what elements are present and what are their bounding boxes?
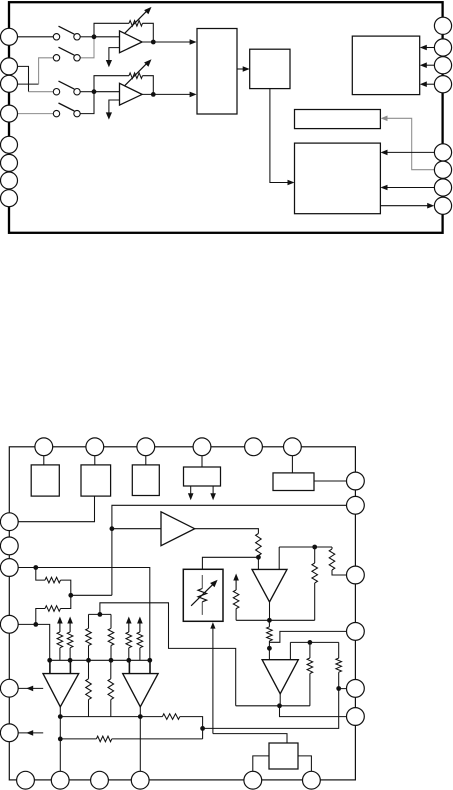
resistor R26 lead top xyxy=(110,660,112,679)
node dot bias rail x=88.5 xyxy=(86,658,91,663)
feedback wire node N2 up and over to A2 output xyxy=(94,76,129,92)
resistor R17 lead bottom xyxy=(88,646,90,661)
resistor R17 lead top xyxy=(88,614,90,628)
wire amp A5 output to pin P-B4 xyxy=(139,706,141,780)
output rail lower right segment xyxy=(112,738,203,740)
wire node N5 to comparator U2 xyxy=(268,648,270,659)
resistor R25 xyxy=(86,679,92,700)
arrow into block E from pin R5 xyxy=(381,150,388,156)
variable resistor VR2 in A2 feedback xyxy=(129,73,143,79)
wire pin R5 to block E xyxy=(387,151,435,153)
node dot bias rail x=70.1 xyxy=(68,658,73,663)
amp A4 xyxy=(43,674,79,707)
wire pin P-B6 to OSC xyxy=(298,756,311,772)
output rail upper right segment xyxy=(180,717,203,739)
resistor R25 lead bottom xyxy=(88,700,90,717)
resistor R20 lead right xyxy=(61,595,71,608)
arrow into block E from block B xyxy=(288,180,295,186)
node dot N9 xyxy=(33,622,38,627)
current source arrow I5 xyxy=(137,617,143,624)
pin L1 (top diagram) xyxy=(1,28,18,45)
switch S2 xyxy=(53,55,59,61)
wire node N7 to pin P-R5 xyxy=(339,688,356,690)
output rail upper xyxy=(60,716,162,718)
wire node N1 to op-amp A1 input xyxy=(94,36,120,38)
wire pin P-L4 to node N9 xyxy=(9,623,36,625)
pin R2 (top diagram) xyxy=(434,39,451,56)
resistor R10 xyxy=(256,534,262,556)
pin P-T3 xyxy=(137,438,155,456)
variable resistor VR1 in A1 feedback xyxy=(129,21,143,27)
switch S1 xyxy=(53,34,59,40)
wire box F5 to pin P-R1 xyxy=(314,480,355,482)
arrow into block E from pin R7 xyxy=(381,185,388,191)
pin P-T5 xyxy=(245,438,263,456)
pin L7 (top diagram) xyxy=(1,172,18,189)
pin R3 (top diagram) xyxy=(434,57,451,74)
wire pin R7 to block E xyxy=(387,187,435,189)
pin P-R3 xyxy=(347,566,365,584)
pin P-B4 xyxy=(131,771,149,789)
resistor R15 (U2 feedback) xyxy=(307,658,313,674)
wire tap to buffer input rail xyxy=(71,594,112,596)
wire U1 inverting input from node N4 xyxy=(278,547,280,569)
outer border of top block diagram xyxy=(9,2,443,233)
wire feedback node N6 rail xyxy=(290,641,338,643)
op-amp A1 xyxy=(120,31,143,53)
wire pin R6 route to block D xyxy=(387,118,435,169)
wire bias rail right stub to amp A5 xyxy=(149,660,151,673)
arrow into block C from pin R2 xyxy=(420,45,427,51)
bias rail xyxy=(50,659,150,661)
varicap zigzag xyxy=(198,589,207,602)
wire pin P-L3 rail xyxy=(9,568,150,661)
block B (control logic) xyxy=(250,49,290,88)
resistor R26 lead bottom xyxy=(110,700,112,717)
block MUX (input selector) xyxy=(197,29,237,115)
wire A3 output to resistor R10 xyxy=(195,529,259,534)
wire U1 output down xyxy=(269,602,271,620)
resistor R21 of current source xyxy=(57,632,63,648)
resistor R14 xyxy=(267,627,273,641)
resistor R18 lead top xyxy=(110,614,112,628)
varicap body line xyxy=(201,575,203,589)
wire bias rail to amp A5 xyxy=(128,660,130,673)
switch S4 xyxy=(53,110,59,116)
box F3 xyxy=(132,465,159,496)
block D (register) xyxy=(295,110,381,129)
pin P-R6 xyxy=(347,708,365,726)
wire varcap box top to node N3 xyxy=(202,557,258,569)
wire Y-node rail xyxy=(89,613,112,615)
wire U2 output to pin P-R6 xyxy=(280,706,356,717)
box F5 xyxy=(273,473,314,491)
op-amp A2 xyxy=(120,83,143,105)
resistor R11 xyxy=(312,563,318,583)
pin P-R4 xyxy=(347,623,365,641)
arrow into block MUX from A1 xyxy=(190,39,197,45)
node dot mid tap xyxy=(200,726,205,731)
stub pin T2 to box F2 xyxy=(94,456,96,465)
wire pin3 route up to switch S2 xyxy=(39,58,54,84)
wire block E to pin R8 xyxy=(380,205,428,207)
varicap arrow xyxy=(191,583,215,606)
resistor R14 lead bottom xyxy=(268,641,270,648)
wire pin R3 to block C xyxy=(426,64,435,66)
wire pin3 stub xyxy=(9,83,39,85)
wire node N3 to comparator U1 non-inverting input xyxy=(257,557,259,569)
switch S3 xyxy=(53,89,59,95)
wire bias rail left stub to amp A4 xyxy=(49,660,51,673)
resistor R11 lead top xyxy=(314,547,316,563)
arrow down from box F4 right xyxy=(212,486,214,494)
current source arrow I2 xyxy=(57,617,63,624)
pin L4 (top diagram) xyxy=(1,105,18,122)
wire node N4 rail xyxy=(279,546,332,548)
resistor R15 lead top xyxy=(309,642,311,658)
resistor R22 of current source xyxy=(67,632,73,648)
wire into buffer amp A3 xyxy=(112,528,161,530)
current source arrow I4 xyxy=(126,617,132,624)
wire A1 output to block MUX xyxy=(142,41,190,43)
node dot N4 xyxy=(312,545,317,550)
outer border ring of IC schematic xyxy=(9,447,355,780)
resistor R16 xyxy=(336,658,342,672)
current source arrow I1 xyxy=(233,574,239,581)
wire node N7 down to bottom rail xyxy=(203,689,339,729)
stub pin T3 to box F3 xyxy=(145,456,147,465)
oscillator box OSC xyxy=(269,743,298,769)
pin R1 (top diagram) xyxy=(434,17,451,34)
pin P-B3 xyxy=(91,771,109,789)
pin P-B5 xyxy=(244,771,262,789)
wire pin P-R4 to node N5 xyxy=(269,631,355,642)
resistor R18 xyxy=(108,628,114,645)
resistor R11 lead bottom to U1 output rail xyxy=(314,583,316,620)
node dot A1 output xyxy=(151,40,156,45)
pin R5 (top diagram) xyxy=(434,144,451,161)
wire resistor R10 to node N3 xyxy=(257,556,259,558)
resistor R19 lead right xyxy=(61,580,71,595)
wire resistor R12 to pin P-R3 xyxy=(332,570,355,575)
arrow into block B xyxy=(243,66,250,72)
varicap bottom lead with up arrow xyxy=(210,622,215,629)
resistor R19 lead xyxy=(36,568,45,581)
pin P-L6 xyxy=(0,724,18,742)
current source arrow I3 xyxy=(67,617,73,624)
wire box F2 down to pin P-L1 xyxy=(9,496,94,522)
comparator U2 xyxy=(262,660,298,694)
wire A2 output to block MUX xyxy=(142,93,190,95)
pin P-T4 xyxy=(193,438,211,456)
wire pin R2 to block C xyxy=(426,47,435,49)
resistor R13 of current source I1 xyxy=(233,590,239,609)
wire pin1 to switch S1 xyxy=(9,36,54,38)
resistor R22 lead to bias rail xyxy=(69,648,71,661)
node dot N1 xyxy=(92,34,97,39)
wire route to switch S3 xyxy=(29,91,54,93)
varicap box VC1 xyxy=(183,569,223,621)
pin P-B1 xyxy=(17,771,35,789)
node dot on P-L3 rail xyxy=(33,565,38,570)
wire U2 inverting input xyxy=(289,642,291,659)
pin P-T1 xyxy=(35,438,53,456)
arrow from block E to pin R8 xyxy=(427,203,434,209)
resistor R24 of current source xyxy=(137,632,143,648)
node dot A5 output xyxy=(138,714,143,719)
output rail lower xyxy=(60,738,96,740)
A1 inverting input stub to reference arrow xyxy=(109,48,120,61)
wire switch S4 to node N2 xyxy=(80,92,94,114)
wire pin R4 to block C xyxy=(426,83,435,85)
resistor R26 xyxy=(108,679,114,700)
stub pin T6 to box F5 xyxy=(291,456,293,473)
resistor R21 lead to bias rail xyxy=(59,648,61,661)
wire U1 output rail xyxy=(236,619,315,621)
resistor R28 xyxy=(96,736,111,742)
node dot A2 output xyxy=(151,92,156,97)
pin P-T6 xyxy=(284,438,302,456)
resistor R20 lead left xyxy=(36,609,45,625)
wire U2 output down xyxy=(279,694,281,706)
resistor R16 lead top xyxy=(338,642,340,658)
node dot bias rail x=111.0 xyxy=(109,658,114,663)
arrow into pin P-L5 xyxy=(9,687,43,689)
resistor R27 xyxy=(162,714,179,720)
node dot N8 xyxy=(98,612,103,617)
feedback wire node N1 up and over to A1 output xyxy=(94,23,129,37)
pin P-R5 xyxy=(347,680,365,698)
resistor R23 of current source xyxy=(126,632,132,648)
wire node N9 to bias rail xyxy=(36,624,50,660)
arrow into block C from pin R3 xyxy=(420,62,427,68)
pin P-R2 xyxy=(347,496,365,514)
pin R6 (top diagram) xyxy=(434,161,451,178)
wire pin2 route down xyxy=(9,66,29,91)
A2 inverting input stub to reference arrow xyxy=(109,100,120,113)
arrow into pin P-L6 xyxy=(9,732,43,734)
pin R4 (top diagram) xyxy=(434,76,451,93)
wire U2 output rail xyxy=(236,705,310,707)
resistor R18 lead bottom xyxy=(110,646,112,661)
pin L8 (top diagram) xyxy=(1,190,18,207)
pin P-L5 xyxy=(0,679,18,697)
box F1 xyxy=(31,465,59,496)
pin R7 (top diagram) xyxy=(434,179,451,196)
wire switch S1 to node N1 xyxy=(80,36,94,38)
pin P-L1 xyxy=(0,513,18,531)
node dot A4 output upper xyxy=(58,714,63,719)
wire switch S3 to node N2 xyxy=(80,91,94,93)
stub pin T4 to box F4 xyxy=(201,456,203,467)
node dot N7 xyxy=(336,686,341,691)
resistor R12 xyxy=(329,549,335,570)
resistor R19 xyxy=(45,577,61,583)
pin P-T2 xyxy=(86,438,104,456)
node dot N3 xyxy=(256,555,261,560)
resistor R13 lead to U1 output rail xyxy=(235,609,237,621)
arrow of variable resistor VR1 xyxy=(125,9,149,33)
arrow into block C from pin R4 xyxy=(420,81,427,87)
node dot N2 xyxy=(92,89,97,94)
resistor R24 lead to bias rail xyxy=(139,648,141,661)
stub pin T1 to box F1 xyxy=(43,456,45,465)
arrow into block MUX from A2 xyxy=(190,92,197,98)
resistor R12 lead top xyxy=(331,547,333,549)
wire varicap lead to oscillator box xyxy=(213,734,287,743)
pin P-L3 xyxy=(0,559,18,577)
pin P-B2 xyxy=(51,771,69,789)
wire buffer input rail to pin P-R2 xyxy=(112,505,356,595)
resistor R17 xyxy=(86,628,92,645)
box F4 xyxy=(184,467,221,486)
resistor R16 lead bottom xyxy=(338,672,340,688)
node dot bias rail x=128.8 xyxy=(126,658,131,663)
pin L6 (top diagram) xyxy=(1,154,18,171)
buffer amp A3 xyxy=(161,512,195,546)
long route wire from resistor node to U2 output xyxy=(100,603,236,706)
box F2 xyxy=(81,465,111,496)
comparator U1 xyxy=(252,569,287,602)
node dot bias rail x=149.8 xyxy=(147,658,152,663)
block C (memory) xyxy=(352,36,419,95)
pin P-L4 xyxy=(0,615,18,633)
wire bias rail to amp A4 xyxy=(69,660,71,673)
arrow down from box F4 left xyxy=(190,486,192,494)
pin L3 (top diagram) xyxy=(1,75,18,92)
wire node N2 to op-amp A2 input xyxy=(94,91,120,93)
node dot U1 output xyxy=(267,618,272,623)
resistor R20 xyxy=(45,606,61,612)
pin P-B6 xyxy=(303,771,321,789)
node dot bias rail x=49.7 xyxy=(47,658,52,663)
node dot N6 xyxy=(308,640,313,645)
wire block B down to block E xyxy=(270,89,288,183)
node dot N5 xyxy=(267,646,272,651)
pin L5 (top diagram) xyxy=(1,136,18,153)
node dot R19/R20 tap xyxy=(68,593,73,598)
node dot U2 output xyxy=(277,703,282,708)
arrow of variable resistor VR2 xyxy=(125,62,149,86)
amp A5 xyxy=(123,674,158,707)
resistor R23 lead to bias rail xyxy=(128,648,130,661)
pin P-L2 xyxy=(0,537,18,555)
resistor R25 lead top xyxy=(88,660,90,679)
pin L2 (top diagram) xyxy=(1,58,18,75)
resistor R14 lead top xyxy=(268,620,270,627)
wire pin P-B5 to OSC xyxy=(253,756,269,772)
wire amp A4 output to pin P-B2 xyxy=(59,706,61,780)
pin R8 (top diagram) xyxy=(434,197,451,214)
wire switch S2 to node N1 xyxy=(80,37,94,58)
pin P-R1 xyxy=(347,472,365,490)
wire pin4 to switch S4 xyxy=(9,113,54,115)
block E (interface logic) xyxy=(295,143,381,214)
node dot buffer input xyxy=(110,526,115,531)
resistor R15 lead bottom to U2 output rail xyxy=(309,674,311,706)
wire block MUX to block B xyxy=(237,68,244,70)
node dot A4 output lower xyxy=(58,737,63,742)
